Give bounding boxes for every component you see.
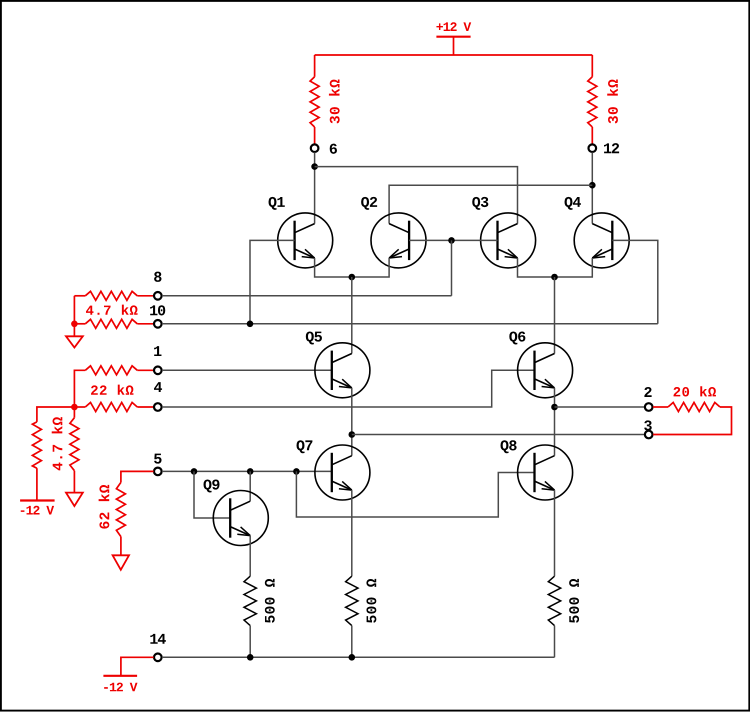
ground (below 4.7k pair) [66, 327, 83, 348]
transistor Q7 [297, 440, 370, 500]
power -12V (left) [20, 501, 55, 515]
wire pin 14 line [162, 656, 555, 658]
node Q6 emitter - pin 2 junction [551, 404, 558, 411]
pin 8 terminal [154, 272, 162, 300]
resistor 22 kOhm (pin 4) [74, 385, 153, 412]
power +12V supply [436, 22, 471, 55]
wire Q7/Q8 base link [296, 471, 534, 517]
node Q5 emitter - pin 3 junction [349, 431, 356, 438]
wire Q4 base to pin 10 line [612, 240, 658, 323]
wire Q2 collector to pin 12 node [389, 185, 592, 223]
resistor 500 Ohm (Q8 emitter) [548, 490, 579, 657]
node pin6-Q3 junction [311, 163, 318, 170]
pin 4 terminal [154, 382, 162, 411]
pin 3 terminal [644, 420, 652, 438]
wire Q1 base to pin 10 line [250, 240, 295, 323]
wire Q1/Q2 emitters [315, 258, 390, 277]
resistor 30 kOhm (right, pin 12) [588, 55, 618, 144]
ground (below 62k) [113, 555, 129, 570]
wire Q2/Q3 bases join [409, 239, 497, 241]
node 22k pair junction [71, 404, 78, 411]
transistor Q9 [204, 479, 269, 545]
wire pin 3 line [352, 434, 645, 436]
resistor 62 kOhm (pin 5 to ground) [99, 471, 154, 555]
pin 2 terminal [644, 387, 652, 411]
pin 1 terminal [154, 346, 162, 374]
pin 14 terminal [150, 634, 166, 661]
resistor 4.7 kOhm (pin 10) [74, 305, 153, 329]
node Q3-Q4 emitter junction [551, 274, 558, 281]
wire Q2/Q3 bases to pin 8 line [451, 240, 453, 295]
wire pin 12 to Q4 collector [591, 152, 593, 223]
transistor Q8 [501, 440, 573, 500]
wire pin 4 to Q6 base [162, 370, 535, 407]
resistor 500 Ohm (Q9 emitter) [244, 536, 275, 658]
wire pin 6 node to Q3 collector [315, 167, 518, 224]
pin 10 terminal [150, 305, 165, 327]
wire pin 10 line [162, 323, 658, 325]
resistor 4.7 kOhm (to -12V) [32, 407, 74, 501]
transistor Q4 [565, 197, 630, 268]
wire pin 2 line [555, 406, 645, 408]
transistor Q1 [269, 197, 333, 268]
transistor Q2 [361, 197, 426, 268]
wire Q6 emitter to Q8 collector [554, 388, 556, 456]
wire Q9 collector [249, 471, 251, 501]
transistor Q3 [472, 197, 535, 268]
ground (below 4.7k) [66, 493, 83, 507]
resistor 22 kOhm (pin 1) [74, 366, 153, 407]
node 500ohm-1 junction [247, 654, 254, 661]
pin 5 terminal [154, 454, 162, 476]
transistor Q6 [509, 331, 572, 397]
wire pin 6 to Q1 collector [314, 152, 316, 223]
resistor 30 kOhm (left, pin 6) [310, 55, 340, 144]
wire Q1/Q2 emitters to Q5 collector [351, 277, 353, 354]
node 4.7k pair junction [71, 321, 78, 328]
wire pin 8 to Q2/Q3 bases [162, 295, 452, 297]
node pin12-Q2 junction [589, 182, 596, 189]
wire pin 14 to -12V [121, 657, 154, 676]
node Q2-Q3 base junction [448, 237, 455, 244]
wire pin 5 to Q7 base [162, 470, 332, 472]
node Q9 base junction [191, 468, 198, 475]
wire Q9 base jog [194, 471, 230, 518]
wire Q5 emitter to Q7 collector [351, 388, 353, 456]
wire Q3/Q4 emitters [518, 258, 593, 277]
node Q1-Q2 emitter junction [349, 274, 356, 281]
node pin10-Q1 base junction [247, 321, 254, 328]
pin 12 terminal [589, 143, 620, 153]
wire Q3/Q4 emitters to Q6 collector [554, 277, 556, 354]
wire +12V rail [315, 54, 593, 56]
transistor Q5 [306, 331, 370, 397]
resistor 20 kOhm (pins 2-3) [653, 386, 732, 434]
resistor 4.7 kOhm (pin 8) [74, 291, 153, 324]
wire pin 1 to Q5 base [162, 369, 332, 371]
power -12V (bottom) [103, 676, 137, 692]
resistor 500 Ohm (Q7 emitter) [346, 490, 377, 657]
resistor 4.7 kOhm (to ground) [70, 407, 79, 493]
node 500ohm-2 junction [349, 654, 356, 661]
node Q9 collector junction [247, 468, 254, 475]
node Q7 base junction [293, 468, 300, 475]
pin 6 terminal [311, 144, 337, 154]
